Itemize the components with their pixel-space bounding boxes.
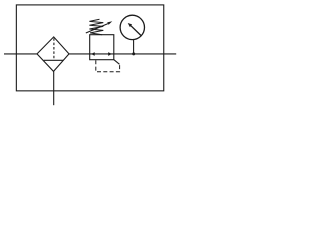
regulator R1: relief passage (dashed) [96, 60, 120, 71]
regulator R1: left flow arrowhead [91, 52, 95, 56]
regulator R1: vent diagonal [114, 60, 120, 65]
pressure gauge G1: stem line [133, 40, 135, 54]
regulator R1: pressure setting spring [89, 19, 103, 34]
pressure gauge G1: dial circle [120, 15, 144, 39]
junction dot on main line [132, 52, 135, 55]
regulator R1: adjustment arrowhead [107, 21, 112, 25]
regulator R1: adjustment arrow shaft [86, 24, 108, 33]
filter F1: diamond body [37, 37, 69, 72]
filter F1: dashed condensate centerline [53, 38, 55, 60]
enclosure box [16, 5, 163, 91]
wire: inlet line (left port) [4, 53, 37, 55]
wire: main flow line filter to outlet [69, 53, 176, 55]
filter F1: water level chord [44, 59, 64, 61]
regulator R1: body box [90, 35, 114, 60]
filter F1: drain line [53, 71, 55, 105]
pressure gauge G1: needle shaft [131, 25, 142, 36]
regulator R1: right flow arrowhead [108, 52, 112, 56]
pressure gauge G1: needle arrowhead [128, 23, 132, 27]
